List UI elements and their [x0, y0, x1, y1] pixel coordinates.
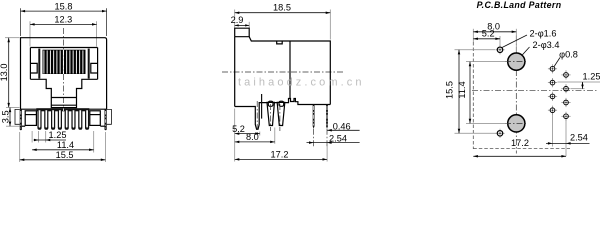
- front view: right well box: [91, 63, 98, 73]
- side view: dimension 5.2: [232, 109, 260, 162]
- side view: plastic peg 2 (tapered): [267, 102, 274, 125]
- side view: contact cap on peg 3: [279, 101, 284, 106]
- svg-text:5.2: 5.2: [482, 29, 495, 39]
- svg-text:2.9: 2.9: [231, 15, 244, 25]
- land pattern: dimension 1.25 (pad stagger): [558, 72, 600, 89]
- svg-text:17.2: 17.2: [271, 149, 289, 159]
- side view: dimension 2.54 (pin spacing): [307, 133, 360, 143]
- land pattern: bottom post hole (phi 3.4): [505, 115, 528, 132]
- front view: right ear box: [90, 111, 101, 126]
- side view: dimension 17.2: [235, 146, 327, 162]
- svg-text:2.54: 2.54: [570, 132, 588, 142]
- front view: contact hatch band (gold contacts): [43, 50, 86, 74]
- land pattern: top mounting hole (phi 1.6): [495, 45, 504, 54]
- front view: socket opening top edge: [30, 47, 97, 49]
- svg-text:2-φ1.6: 2-φ1.6: [530, 29, 557, 39]
- front view: keystone latch profile: [30, 79, 97, 97]
- land pattern: footprint dashed outline: [472, 42, 474, 149]
- land pattern: solder pads (8 x phi 0.8): [548, 64, 571, 121]
- side view: latch boss block: [235, 28, 250, 37]
- side view: dimension 2.9 (latch boss): [231, 15, 250, 28]
- front view: latch slot box: [51, 98, 76, 108]
- front view: socket right wall: [97, 48, 99, 80]
- front view: left ear box: [25, 111, 36, 126]
- svg-text:φ0.8: φ0.8: [559, 49, 578, 59]
- svg-text:2.54: 2.54: [329, 133, 347, 143]
- svg-text:3.5: 3.5: [0, 110, 10, 123]
- svg-text:2-φ3.4: 2-φ3.4: [533, 40, 560, 50]
- front view: dimension 15.8 (top width): [21, 1, 107, 36]
- side view: dimension 8.0: [235, 128, 275, 144]
- land pattern: label 2-phi3.4 with leader: [522, 40, 560, 56]
- svg-text:1.25: 1.25: [583, 72, 600, 82]
- land pattern: label phi0.8 with leader: [554, 49, 578, 67]
- side view: plastic peg 3 (tapered): [274, 102, 284, 125]
- front view: dimension 13.0 (body height, left): [0, 38, 19, 108]
- land pattern: dimension 17.2: [473, 138, 566, 158]
- front view: face bottom edge: [21, 108, 107, 110]
- land pattern: vertical centerline through posts: [515, 36, 517, 154]
- side view: bottom profile right steps: [285, 99, 331, 105]
- land pattern: dimension 8.0: [473, 22, 516, 52]
- svg-text:15.5: 15.5: [56, 150, 74, 160]
- side view: contact cap on peg 2: [268, 101, 273, 106]
- side view: dimension 18.5 (depth): [235, 3, 331, 40]
- front view: left side tab: [15, 109, 20, 124]
- land pattern: dimension 11.4 (vertical, posts): [457, 62, 507, 124]
- svg-text:5.2: 5.2: [232, 124, 245, 134]
- side view: bottom profile left + thin peg: [235, 103, 267, 130]
- side view: metal pin 1: [313, 105, 315, 148]
- svg-text:0.46: 0.46: [333, 121, 351, 131]
- side view: dimension 0.46 (pin width): [327, 121, 359, 131]
- side view: horizontal centerline: [222, 71, 344, 73]
- svg-text:1.25: 1.25: [49, 130, 67, 140]
- front view: right side tab: [107, 109, 112, 124]
- front view: body outline: [21, 38, 107, 110]
- front view: pin comb 8 U-channel contacts: [37, 109, 89, 130]
- side view: body outline: [235, 37, 331, 107]
- land pattern: horizontal centerline: [472, 89, 597, 91]
- svg-text:17.2: 17.2: [511, 138, 529, 148]
- front view: pin comb top band: [36, 108, 89, 111]
- front view: left well box: [30, 63, 37, 73]
- front view: bottom section bottom edges: [22, 125, 25, 127]
- svg-text:11.4: 11.4: [457, 81, 467, 98]
- svg-text:taihaodz.com.cn: taihaodz.com.cn: [238, 77, 365, 89]
- side view: top notch: [277, 41, 283, 44]
- front view: socket left wall: [29, 48, 31, 80]
- side view: vertical seam: [289, 41, 291, 99]
- front view: right contact-side bar: [88, 49, 90, 79]
- front view: right side wall pin (dark): [105, 109, 107, 130]
- front view: left contact-side bar: [38, 49, 40, 79]
- land pattern: dimension 15.5 (vertical, holes): [444, 50, 496, 134]
- side view: metal pin 2: [326, 105, 328, 149]
- front view: left side wall pin (dark): [20, 109, 22, 130]
- front view: dimension 12.3 (opening width): [30, 15, 97, 47]
- svg-text:8.0: 8.0: [246, 132, 259, 142]
- front view: dimension 3.5 (lower section height, left): [0, 108, 19, 127]
- svg-text:15.5: 15.5: [444, 81, 454, 99]
- front view: dimension 1.25 (pin pitch): [32, 130, 66, 142]
- svg-text:13.0: 13.0: [0, 64, 9, 82]
- side view: contact tail pin (thin): [261, 94, 263, 119]
- front view: dimension 11.4 (comb width): [32, 131, 94, 153]
- svg-text:P.C.B.Land Pattern: P.C.B.Land Pattern: [477, 0, 562, 10]
- land pattern: dimension 5.2: [473, 29, 500, 46]
- land pattern: top post hole (phi 3.4): [505, 53, 528, 70]
- svg-text:15.8: 15.8: [55, 1, 73, 11]
- svg-text:12.3: 12.3: [54, 15, 72, 25]
- front view: vertical centerline: [63, 28, 65, 109]
- svg-text:11.4: 11.4: [57, 140, 74, 150]
- land pattern: bottom mounting hole (phi 1.6): [495, 129, 504, 138]
- side view: peg centerlines: [256, 101, 258, 134]
- front view: dimension 15.5 (bottom width): [20, 132, 106, 162]
- svg-text:18.5: 18.5: [273, 3, 291, 13]
- land pattern: dimension 2.54 (pad columns): [546, 113, 590, 156]
- land pattern: label 2-phi1.6 with leader: [502, 29, 557, 48]
